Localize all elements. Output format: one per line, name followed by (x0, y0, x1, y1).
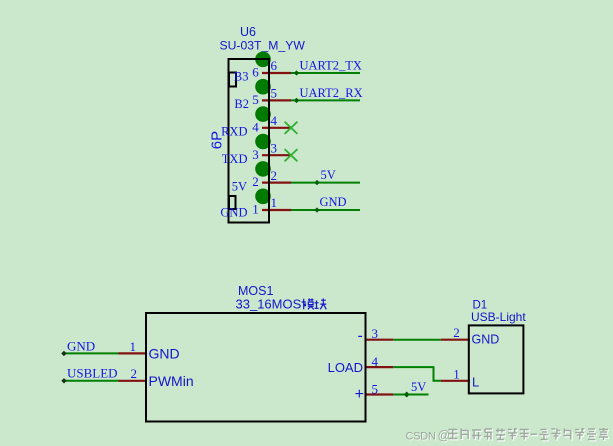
wire GND (MOS1) (61, 351, 118, 356)
svg-text:USBLED: USBLED (67, 366, 118, 381)
svg-text:RXD: RXD (221, 125, 247, 139)
svg-text:2: 2 (252, 174, 259, 189)
MOS1 body outline (146, 313, 366, 422)
svg-text:3: 3 (372, 326, 379, 341)
wire UART2_RX (291, 98, 360, 103)
svg-text:33_16MOS: 33_16MOS (236, 297, 302, 312)
MOS1 pin stubs (119, 340, 394, 395)
wire 5V (291, 180, 360, 185)
svg-text:6: 6 (271, 58, 278, 73)
svg-text:UART2_RX: UART2_RX (300, 86, 363, 100)
D1 pin 2 texts (453, 325, 499, 346)
watermark CSDN (406, 428, 610, 444)
D1 pin 1 texts (453, 366, 479, 389)
U6 pin 5 numbers (252, 86, 277, 107)
U6 body outline (229, 59, 270, 223)
svg-text:SU-03T_M_YW: SU-03T_M_YW (220, 39, 306, 53)
U6 pin 1 numbers (252, 195, 277, 216)
svg-text:4: 4 (252, 119, 259, 134)
MOS1 pin 5 texts (355, 381, 378, 403)
svg-text:1: 1 (252, 202, 259, 217)
svg-text:B3: B3 (234, 70, 249, 84)
svg-text:5V: 5V (321, 168, 336, 182)
U6 key rect top (229, 73, 236, 87)
U6 pad circle 4 (255, 106, 271, 122)
svg-text:1: 1 (271, 195, 278, 210)
svg-text:LOAD: LOAD (328, 360, 363, 375)
svg-text:TXD: TXD (222, 152, 248, 166)
svg-text:GND: GND (320, 195, 347, 209)
no-connect X pin 4 (285, 122, 298, 134)
svg-text:3: 3 (271, 140, 278, 155)
svg-text:+: + (355, 386, 364, 403)
svg-text:USB-Light: USB-Light (471, 310, 526, 324)
svg-text:4: 4 (271, 113, 278, 128)
svg-text:5V: 5V (232, 179, 247, 193)
svg-text:UART2_TX: UART2_TX (300, 59, 362, 73)
wire UART2_TX (291, 70, 360, 75)
svg-text:5: 5 (252, 92, 259, 107)
svg-text:U6: U6 (240, 25, 256, 39)
svg-text:4: 4 (372, 354, 379, 369)
U6 pad circle 2 (255, 161, 271, 177)
wire USBLED (61, 378, 118, 383)
MOS1 comment 33_16MOS module (236, 297, 327, 312)
U6 pin stubs (262, 73, 291, 210)
MOS1 pin 4 texts (328, 354, 379, 375)
U6 pin 6 numbers (252, 58, 277, 79)
U6 pad circle 3 (255, 134, 271, 150)
wire 5V (bottom) (393, 392, 428, 398)
svg-text:L: L (472, 375, 479, 390)
svg-text:GND: GND (472, 333, 500, 347)
U6 key rect bottom (229, 196, 236, 209)
svg-text:2: 2 (271, 168, 278, 183)
U6 pin 4 numbers (252, 113, 277, 134)
svg-text:3: 3 (252, 147, 259, 162)
U6 pin 2 numbers (252, 168, 277, 189)
svg-text:2: 2 (131, 366, 138, 381)
svg-text:-: - (357, 327, 362, 344)
MOS1 pin 1 texts (130, 339, 180, 362)
U6 pin 3 numbers (252, 140, 277, 161)
svg-text:@: @ (438, 429, 451, 443)
svg-text:2: 2 (453, 325, 460, 340)
D1 body outline (469, 325, 524, 393)
svg-text:CSDN: CSDN (406, 431, 436, 443)
svg-text:6: 6 (252, 65, 259, 80)
svg-text:PWMin: PWMin (149, 373, 194, 389)
svg-text:5: 5 (271, 86, 278, 101)
D1 pin stubs (441, 340, 470, 381)
svg-text:GND: GND (149, 346, 180, 362)
wire GND (291, 207, 360, 212)
U6 pad circle 1 (255, 189, 271, 205)
U6 pad circle 6 (255, 52, 271, 68)
svg-text:1: 1 (453, 366, 460, 381)
svg-text:1: 1 (130, 339, 137, 354)
MOS1 pin 2 texts (131, 366, 194, 389)
svg-text:B2: B2 (234, 97, 249, 111)
svg-text:GND: GND (220, 206, 247, 220)
svg-text:5V: 5V (411, 380, 426, 394)
MOS1 pin 3 texts (357, 326, 378, 344)
U6 pad circle 5 (255, 79, 271, 95)
no-connect X pin 3 (285, 149, 298, 161)
wire MOS1 pin3 to D1 pin2 (393, 339, 441, 341)
wire LOAD to D1 pin1 (393, 367, 441, 381)
svg-text:5: 5 (372, 381, 379, 396)
svg-text:GND: GND (67, 339, 95, 354)
